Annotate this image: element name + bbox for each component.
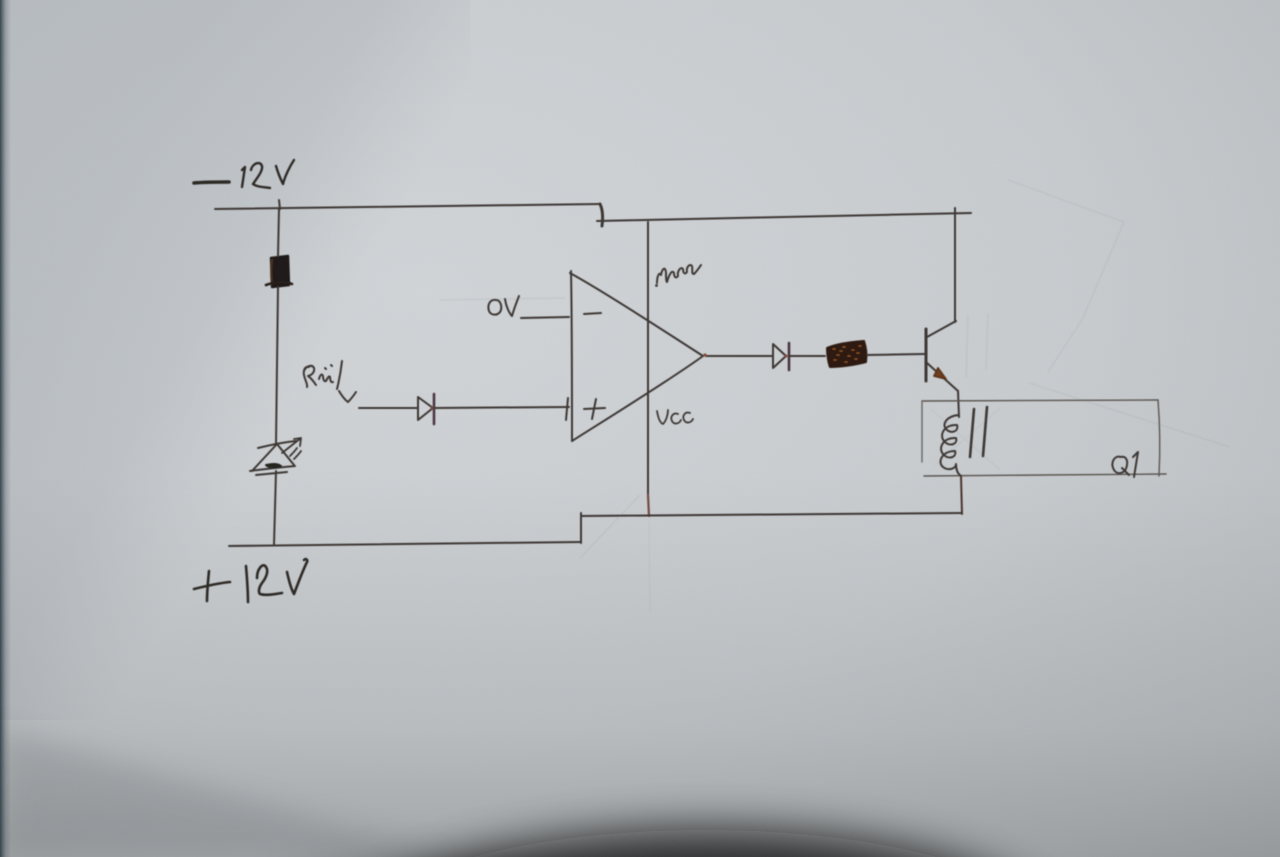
wire: D1 to op-amp bbox=[435, 407, 569, 408]
faint ghost pencil lines bbox=[440, 180, 1230, 612]
wire: left rail upper bbox=[278, 209, 279, 256]
relay box bbox=[922, 400, 1166, 476]
label +12V bbox=[194, 559, 307, 602]
diode D3 triangle bbox=[773, 344, 786, 368]
wire: emitter to coil bbox=[958, 391, 959, 417]
LED D2 arrows bbox=[282, 438, 301, 459]
junction tick at node A bbox=[279, 200, 280, 209]
bottom-left diagonal shadow bbox=[0, 728, 450, 857]
diode D3 cathode bar bbox=[788, 343, 791, 370]
wire: left rail lower bbox=[274, 471, 276, 545]
wire: bottom rail step up bbox=[580, 513, 582, 543]
wire: +12V rail bottom left segment bbox=[229, 542, 581, 546]
wire: masse vertical lower (brownish) bbox=[648, 495, 649, 516]
node: D3 apex tint bbox=[785, 355, 788, 358]
wire: left rail middle bbox=[276, 287, 278, 444]
label VCC bbox=[657, 410, 693, 424]
left dark edge bbox=[0, 0, 11, 857]
wire: rail step down bbox=[600, 204, 603, 226]
wire: op-amp output bbox=[706, 355, 772, 357]
label -12V bbox=[194, 160, 294, 188]
label Q1 bbox=[1112, 452, 1138, 477]
wire: bottom rail right segment bbox=[582, 513, 962, 516]
wire: non-inverting input bbox=[359, 407, 417, 409]
LED D2 bbox=[250, 441, 296, 475]
wire: -12V rail top right segment bbox=[597, 213, 971, 221]
wire: R2 to Q base bbox=[867, 354, 924, 355]
diode D1 cathode bar bbox=[433, 394, 436, 424]
relay core bars bbox=[970, 407, 987, 457]
top-left shadow band bbox=[0, 0, 470, 720]
transistor emitter arrowhead bbox=[934, 368, 946, 379]
wire: inverting input bbox=[521, 317, 569, 318]
transistor Q (NPN) bbox=[926, 321, 958, 391]
node: D1 apex tint bbox=[431, 407, 434, 410]
inductor L1 (relay coil) bbox=[940, 415, 961, 476]
wire: collector riser bbox=[954, 208, 956, 322]
wire: coil bottom to bottom rail bbox=[961, 476, 962, 514]
label OV bbox=[488, 296, 519, 316]
node: output dot bbox=[703, 353, 706, 356]
diode D1 triangle bbox=[418, 397, 433, 420]
wire: masse vertical bbox=[647, 222, 649, 495]
wire: D3 to R2 bbox=[790, 355, 825, 357]
resistor R1 (dark body) bbox=[266, 256, 292, 287]
resistor R2 (scribbled body) bbox=[827, 341, 866, 367]
label masse bbox=[655, 265, 701, 287]
label Ruil bbox=[304, 361, 342, 389]
op-amp U1 bbox=[566, 271, 703, 441]
wire: -12V rail top left segment bbox=[215, 204, 600, 209]
bottom dark blob bbox=[355, 830, 1055, 857]
faint ghost lines inside relay box bbox=[930, 408, 1000, 470]
arrow under Ruil bbox=[339, 391, 356, 402]
